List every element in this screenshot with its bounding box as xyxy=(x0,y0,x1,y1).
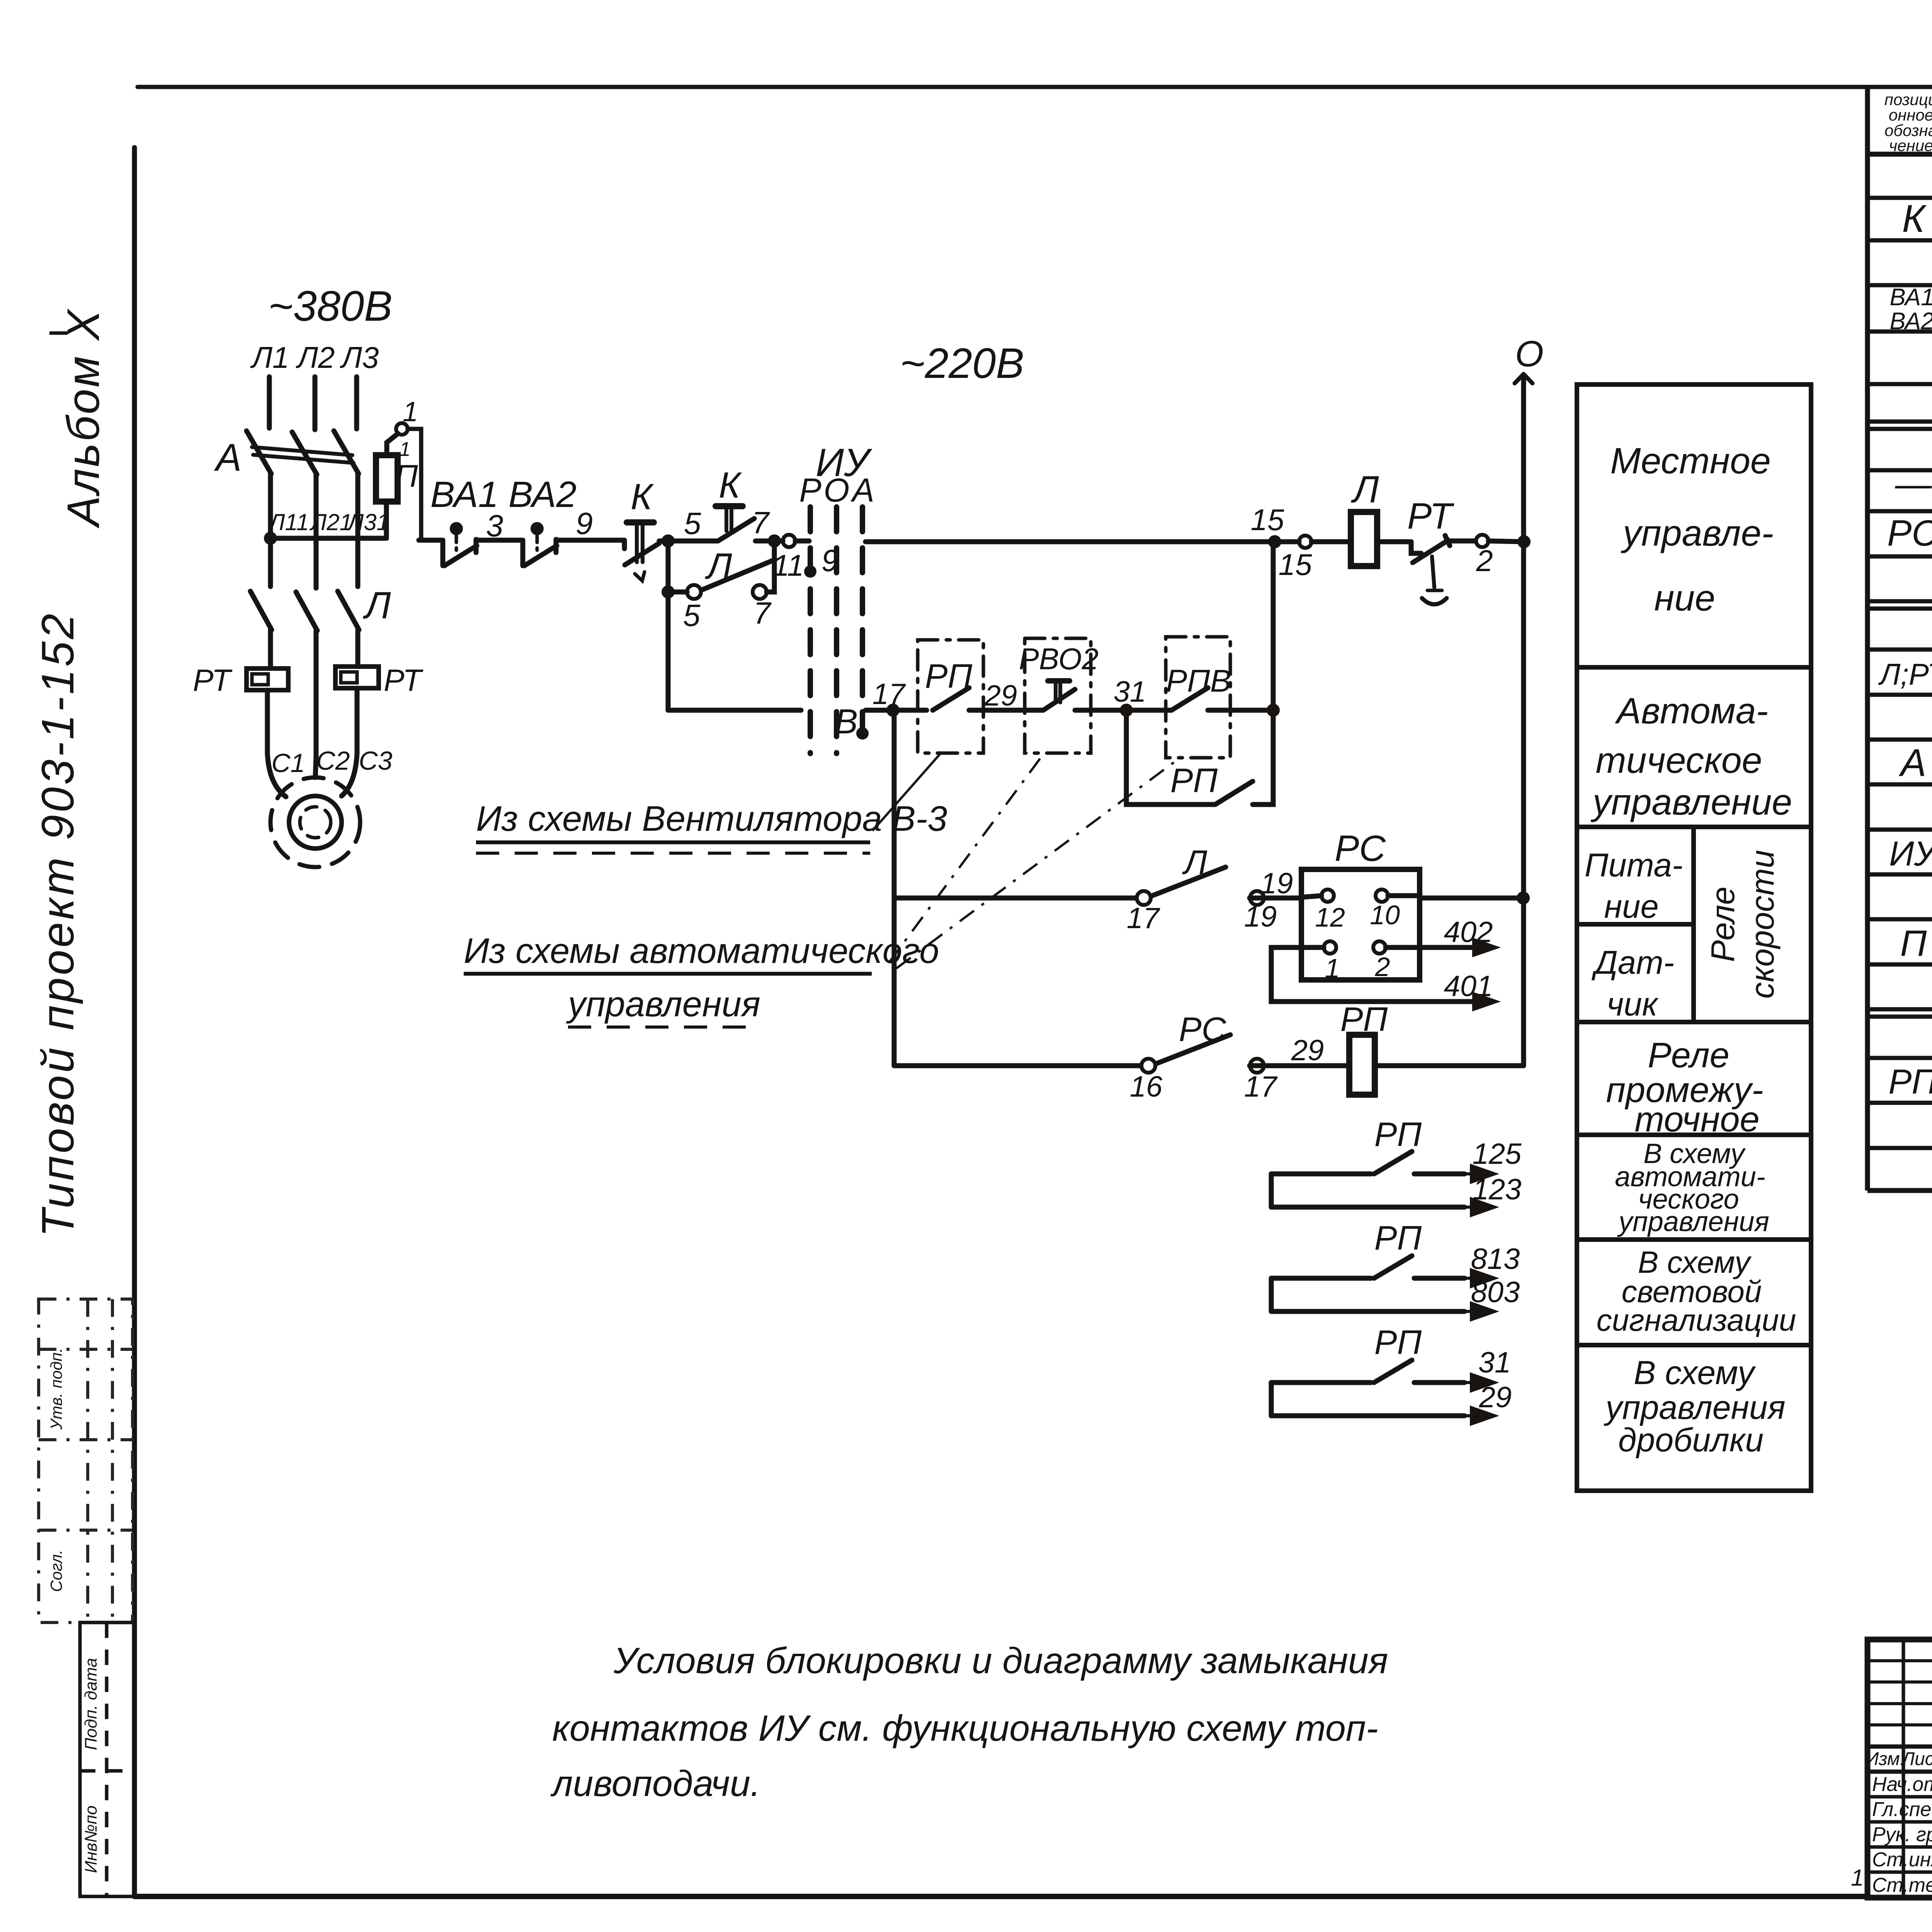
svg-text:Рук. гр.: Рук. гр. xyxy=(1872,1823,1932,1846)
svg-text:12: 12 xyxy=(1315,902,1345,932)
junction dot РС bus xyxy=(1517,891,1530,905)
wire РП coil to bus xyxy=(1375,1063,1524,1068)
svg-text:П: П xyxy=(395,459,418,494)
РС terminal 2 xyxy=(1373,941,1386,954)
РП bypass contact blade xyxy=(1215,781,1253,804)
svg-text:К: К xyxy=(1902,197,1927,240)
svg-text:Л: Л xyxy=(1350,468,1379,510)
wire circle to coil xyxy=(1311,539,1351,544)
arrow 402 xyxy=(1474,940,1496,955)
terminal circle 2 xyxy=(1476,535,1488,547)
motor M outer dashed circle xyxy=(270,777,360,867)
limit switch ВА2 xyxy=(520,540,526,566)
svg-text:Л11: Л11 xyxy=(267,509,309,535)
svg-text:Согл.: Согл. xyxy=(47,1550,65,1592)
zone row line 2 xyxy=(1577,825,1811,829)
svg-text:1: 1 xyxy=(400,438,411,461)
relay box РП (dash-dot) xyxy=(918,640,983,753)
svg-text:ИУ: ИУ xyxy=(1889,835,1932,873)
РП group 1 contact line 125 xyxy=(1271,1172,1464,1177)
svg-text:Из схемы Вентилятора В-3: Из схемы Вентилятора В-3 xyxy=(476,799,947,838)
svg-text:А: А xyxy=(214,436,242,479)
wire to ИУ xyxy=(795,539,809,544)
ZONETABLE xyxy=(1577,384,1811,1491)
svg-text:29: 29 xyxy=(984,679,1017,712)
breaker A pole 2 blade xyxy=(292,432,317,474)
wire 402 xyxy=(1386,945,1475,950)
svg-text:РП: РП xyxy=(1374,1219,1422,1257)
svg-text:16: 16 xyxy=(1130,1070,1163,1103)
svg-text:тическое: тическое xyxy=(1596,740,1762,781)
wire phase L3 lower xyxy=(355,630,361,666)
svg-text:чик: чик xyxy=(1607,986,1658,1023)
zone row line 1 xyxy=(1577,665,1811,670)
svg-text:С1: С1 xyxy=(272,748,305,778)
svg-text:17: 17 xyxy=(1127,902,1160,935)
svg-text:О: О xyxy=(1515,333,1544,374)
wire riser to node 15 xyxy=(1271,542,1276,710)
wire fuse tap xyxy=(270,536,386,541)
wire node1 to control xyxy=(408,429,421,540)
svg-text:7: 7 xyxy=(753,596,772,630)
wire fuse top to node 1 xyxy=(387,434,398,455)
title left thin rows xyxy=(1867,1659,1932,1662)
svg-text:402: 402 xyxy=(1444,916,1493,949)
svg-text:2: 2 xyxy=(1476,544,1493,578)
РП group 2 link xyxy=(1269,1278,1274,1311)
wire phase L3 upper xyxy=(354,377,359,429)
wire to motor C1 xyxy=(267,690,286,797)
wire auto branch resume xyxy=(866,708,927,713)
svg-text:РП: РП xyxy=(1340,1000,1388,1038)
svg-text:ВА1: ВА1 xyxy=(1889,284,1932,311)
zone row line 5 xyxy=(1577,1237,1811,1242)
title left col dividers xyxy=(1902,1639,1905,1898)
svg-text:РП: РП xyxy=(1374,1323,1422,1361)
svg-text:9: 9 xyxy=(821,543,839,578)
wire coil to РТ xyxy=(1377,539,1411,544)
svg-text:15: 15 xyxy=(1279,548,1312,582)
svg-text:Л21: Л21 xyxy=(309,509,352,535)
wire main segment 2 xyxy=(476,538,523,543)
svg-text:РС: РС xyxy=(1179,1010,1227,1048)
svg-text:~220В: ~220В xyxy=(900,340,1024,387)
svg-text:Нач.отд.: Нач.отд. xyxy=(1872,1773,1932,1796)
stop button К xyxy=(622,540,627,549)
speed relay РС box xyxy=(1301,869,1420,980)
stamp box upper (dash-dot) xyxy=(39,1299,133,1622)
svg-text:17: 17 xyxy=(1244,1070,1278,1103)
svg-text:К: К xyxy=(719,465,742,506)
wire phase L3 mid xyxy=(355,474,361,587)
svg-text:Изм.: Изм. xyxy=(1866,1749,1905,1769)
svg-text:В: В xyxy=(835,702,858,741)
node dot on L1 xyxy=(264,532,277,545)
relay box РВО2 (dash-dot) xyxy=(1025,638,1091,753)
wire main segment 3 xyxy=(556,538,624,543)
frame bottom border xyxy=(134,1894,1867,1899)
svg-text:Условия блокировки и диаграмму: Условия блокировки и диаграмму замыкания xyxy=(613,1640,1388,1681)
zone sub divider vertical xyxy=(1691,827,1696,1022)
svg-text:Л1: Л1 xyxy=(250,340,289,374)
parts table header row xyxy=(1867,152,1932,157)
wire fuse bottom xyxy=(384,502,389,538)
svg-text:управления: управления xyxy=(1604,1389,1785,1426)
svg-text:П: П xyxy=(1900,923,1927,964)
svg-text:31: 31 xyxy=(1114,675,1146,708)
РП bypass wire right xyxy=(1253,710,1273,804)
frame top border xyxy=(138,85,1932,89)
svg-text:—: — xyxy=(1895,464,1932,505)
breaker A pole 3 blade xyxy=(334,431,359,474)
РС terminal 12 xyxy=(1321,889,1334,902)
wire main segment 6 xyxy=(866,539,1275,544)
TITLEBLOCK xyxy=(1867,1639,1932,1898)
coil Л xyxy=(1351,512,1377,566)
svg-text:19: 19 xyxy=(1244,900,1277,933)
zone row line 3 xyxy=(1577,1020,1811,1024)
thermal heater РТ right xyxy=(335,667,379,688)
svg-text:Р: Р xyxy=(799,472,821,509)
svg-text:С3: С3 xyxy=(359,746,393,776)
svg-text:123: 123 xyxy=(1473,1173,1522,1206)
svg-text:5: 5 xyxy=(683,598,701,633)
svg-text:Пита-: Пита- xyxy=(1585,847,1683,884)
svg-text:Л: Л xyxy=(1182,843,1207,881)
svg-text:РТ: РТ xyxy=(1407,496,1454,537)
svg-text:Типовой проект 903-1-152: Типовой проект 903-1-152 xyxy=(32,611,83,1237)
svg-text:Реле: Реле xyxy=(1648,1036,1730,1075)
node dot 15 xyxy=(1268,535,1281,548)
CONTROL xyxy=(419,333,1544,1066)
svg-text:Гл.спец.: Гл.спец. xyxy=(1872,1798,1932,1821)
arrow 31 xyxy=(1464,1374,1495,1391)
svg-text:ВА2: ВА2 xyxy=(1889,308,1932,335)
РПВ contact blade xyxy=(1172,688,1208,710)
svg-text:7: 7 xyxy=(752,505,770,540)
coil РП xyxy=(1349,1035,1375,1095)
zone table frame xyxy=(1577,384,1811,1491)
arrow 29 xyxy=(1464,1408,1495,1424)
svg-text:дробилки: дробилки xyxy=(1618,1422,1764,1459)
arrow 813 xyxy=(1464,1270,1495,1286)
РП group 2 blade xyxy=(1374,1256,1412,1278)
svg-text:Ст.инж.: Ст.инж. xyxy=(1872,1849,1932,1871)
svg-text:Л2: Л2 xyxy=(296,340,335,374)
breaker A crossbar xyxy=(252,447,352,455)
line 123 xyxy=(1271,1205,1464,1210)
svg-text:31: 31 xyxy=(1478,1346,1511,1379)
line 803 xyxy=(1271,1309,1464,1314)
svg-text:РВО2: РВО2 xyxy=(1019,642,1099,676)
svg-text:О: О xyxy=(824,472,850,509)
svg-text:401: 401 xyxy=(1444,970,1493,1003)
РВО2 contact symbol xyxy=(1048,678,1070,684)
svg-text:Автома-: Автома- xyxy=(1615,690,1768,731)
РП group 3 blade xyxy=(1374,1360,1412,1383)
wire 401 xyxy=(1271,947,1475,1002)
zone sub divider horizontal xyxy=(1577,922,1694,927)
breaker A pole 1 blade xyxy=(247,431,271,474)
thermal contact РТ xyxy=(1411,542,1421,553)
svg-text:скорости: скорости xyxy=(1744,850,1781,998)
parts table outer verticals xyxy=(1865,87,1870,1190)
line 29 xyxy=(1271,1413,1464,1418)
svg-text:В схему: В схему xyxy=(1634,1354,1756,1391)
wire auto branch left xyxy=(668,708,801,713)
title signature row lines xyxy=(1867,1795,1932,1799)
contactor Л pole 2 xyxy=(296,592,317,631)
svg-text:РП: РП xyxy=(1374,1115,1422,1153)
О bus arrow head xyxy=(1515,374,1532,383)
wire to motor C3 xyxy=(342,688,357,796)
wire into РС xyxy=(1301,896,1321,897)
svg-text:РС: РС xyxy=(1335,828,1386,869)
wire main segment 1 xyxy=(419,538,443,543)
svg-text:Л31: Л31 xyxy=(346,509,389,535)
svg-text:РТ: РТ xyxy=(384,663,423,697)
svg-text:Л: Л xyxy=(704,546,732,587)
svg-text:5: 5 xyxy=(684,506,701,541)
svg-text:Л;РТ: Л;РТ xyxy=(1878,657,1932,691)
svg-text:15: 15 xyxy=(1251,503,1284,537)
svg-text:29: 29 xyxy=(1291,1034,1324,1067)
РП group 1 link xyxy=(1269,1174,1274,1207)
РП group 1 blade xyxy=(1374,1151,1412,1174)
svg-text:17: 17 xyxy=(872,678,906,711)
svg-text:Л: Л xyxy=(362,584,391,626)
wire to motor C2 xyxy=(315,757,316,777)
terminal circle 17 row2 xyxy=(1137,891,1151,905)
svg-text:11: 11 xyxy=(773,548,804,582)
wire Л-РС row left xyxy=(894,896,1135,901)
svg-text:точное: точное xyxy=(1634,1100,1759,1139)
wire main segment 4 xyxy=(659,539,718,544)
svg-text:Лист: Лист xyxy=(1901,1749,1932,1769)
wire self-hold drop xyxy=(666,541,671,710)
junction dot 11 xyxy=(768,534,781,548)
svg-text:Л3: Л3 xyxy=(340,340,379,374)
left riser from 17 xyxy=(892,710,897,1066)
parts row lines block 4 xyxy=(1867,1015,1932,1019)
svg-text:Из схемы автоматического: Из схемы автоматического xyxy=(464,931,939,971)
PARTSTABLE xyxy=(1867,87,1932,1190)
svg-text:1: 1 xyxy=(403,396,418,427)
junction dot 5 xyxy=(662,534,675,548)
wire 2 to О bus xyxy=(1488,541,1525,542)
О bus vertical xyxy=(1521,377,1526,1066)
svg-text:2: 2 xyxy=(1375,952,1390,982)
wire РС to bus xyxy=(1388,896,1522,898)
wire row2 mid xyxy=(1250,896,1301,901)
title header row line xyxy=(1867,1770,1932,1774)
svg-text:С2: С2 xyxy=(316,746,350,776)
svg-text:ние: ние xyxy=(1604,888,1658,925)
wire 31 segment xyxy=(1075,708,1171,713)
motor M inner dashed circle xyxy=(300,807,331,838)
svg-text:РП: РП xyxy=(1170,761,1218,799)
title block outer xyxy=(1867,1639,1932,1898)
arrow 125 xyxy=(1464,1166,1495,1182)
arrow 803 xyxy=(1464,1303,1495,1320)
wire 15 to circle xyxy=(1281,539,1299,544)
svg-text:ние: ние xyxy=(1654,578,1715,619)
svg-text:813: 813 xyxy=(1471,1243,1520,1276)
svg-text:9: 9 xyxy=(576,506,593,541)
svg-text:сигнализации: сигнализации xyxy=(1597,1303,1796,1337)
fuse П body xyxy=(376,455,398,502)
wire phase L1 upper xyxy=(267,377,272,428)
РП group 3 link xyxy=(1269,1383,1274,1416)
contact Л row2 blade xyxy=(1152,867,1226,896)
contactor Л pole 3 xyxy=(338,591,359,630)
wire to right riser xyxy=(1208,708,1273,713)
svg-text:125: 125 xyxy=(1473,1138,1522,1170)
svg-text:Альбом X: Альбом X xyxy=(58,308,109,529)
zone row line 6 xyxy=(1577,1343,1811,1347)
svg-text:Утв. подп.: Утв. подп. xyxy=(47,1348,65,1430)
svg-text:РП: РП xyxy=(1888,1063,1932,1101)
РС terminal 10 xyxy=(1376,889,1388,902)
leader to РП box xyxy=(872,753,940,831)
svg-text:управле-: управле- xyxy=(1621,513,1774,554)
POWER xyxy=(193,282,423,867)
svg-text:3: 3 xyxy=(486,509,503,543)
svg-text:РС: РС xyxy=(1887,513,1932,554)
junction dot right riser xyxy=(1267,704,1280,717)
wire РТ to 2 xyxy=(1450,539,1475,544)
parts row lines block 3 xyxy=(1867,607,1932,611)
wire phase L2 upper xyxy=(313,377,318,430)
node dot В on А line xyxy=(856,727,869,740)
svg-text:управления: управления xyxy=(1617,1206,1769,1237)
node dot 31 xyxy=(1120,704,1133,717)
parts row lines block 1 xyxy=(1867,196,1932,200)
zone row line 4 xyxy=(1577,1133,1811,1137)
wire phase L2 mid xyxy=(314,474,319,588)
SIGNALS xyxy=(668,542,1530,1424)
svg-text:19: 19 xyxy=(1260,867,1293,900)
svg-text:Реле: Реле xyxy=(1705,886,1742,962)
РП group 2 contact line 813 xyxy=(1271,1276,1464,1281)
РП group 3 contact line 31 xyxy=(1271,1380,1464,1385)
svg-text:1: 1 xyxy=(1325,953,1340,983)
wire row3 mid xyxy=(1250,1063,1349,1068)
svg-text:803: 803 xyxy=(1471,1276,1520,1309)
node dot 17 xyxy=(886,704,900,717)
wire РС-РП row left xyxy=(894,1063,1140,1068)
leader to РПВ box xyxy=(896,759,1179,968)
svg-text:10: 10 xyxy=(1370,900,1400,930)
parts row lines block 2 xyxy=(1867,427,1932,431)
self-hold contact Л xyxy=(687,585,701,599)
svg-text:управления: управления xyxy=(566,985,760,1024)
contact РС blade xyxy=(1157,1035,1230,1063)
svg-text:Дат-: Дат- xyxy=(1592,944,1674,981)
svg-text:Местное: Местное xyxy=(1610,440,1771,481)
terminal circle 17b xyxy=(1250,1059,1264,1073)
svg-text:чение: чение xyxy=(1889,136,1932,155)
svg-text:Подп. дата: Подп. дата xyxy=(82,1658,100,1750)
svg-text:РТ: РТ xyxy=(193,663,233,697)
svg-text:А: А xyxy=(1899,741,1927,784)
svg-text:К: К xyxy=(631,476,654,517)
svg-text:~380В: ~380В xyxy=(268,282,392,330)
wire phase L2 lower xyxy=(314,631,319,757)
selector ИУ line А xyxy=(860,507,865,733)
svg-text:управление: управление xyxy=(1590,782,1792,823)
wire 29 segment xyxy=(969,708,1043,713)
arrow 401 xyxy=(1474,994,1496,1009)
terminal circle 19 xyxy=(1250,891,1264,905)
leader to РВО2 box xyxy=(889,754,1043,963)
РП contact blade xyxy=(933,688,969,710)
svg-text:1: 1 xyxy=(1851,1865,1864,1891)
limit switch ВА1 xyxy=(440,540,446,566)
svg-text:контактов ИУ см. функциональну: контактов ИУ см. функциональную схему то… xyxy=(552,1708,1378,1749)
dot 9 on Р line xyxy=(804,565,816,578)
wire phase L1 lower xyxy=(268,630,273,668)
svg-text:ливоподачи.: ливоподачи. xyxy=(550,1763,760,1804)
arrow 123 xyxy=(1464,1199,1495,1215)
svg-text:ВА2: ВА2 xyxy=(509,474,577,515)
junction dot on О bus xyxy=(1517,535,1531,548)
contactor Л pole 1 xyxy=(250,591,272,630)
junction dot self-hold xyxy=(662,585,675,599)
svg-text:Инв№по: Инв№по xyxy=(82,1806,100,1873)
node 1 terminal circle xyxy=(396,423,408,435)
svg-text:А: А xyxy=(850,472,874,509)
relay box РПВ (dash-dot) xyxy=(1166,637,1230,758)
underline of X xyxy=(49,332,68,335)
motor M body circle xyxy=(289,796,342,849)
terminal circle 11 xyxy=(783,535,795,547)
terminal circle 16 xyxy=(1141,1059,1155,1073)
svg-text:29: 29 xyxy=(1479,1381,1512,1414)
selector ИУ line О xyxy=(834,507,839,753)
thermal heater РТ left xyxy=(247,668,288,690)
РП bypass drop xyxy=(1126,710,1215,804)
wire main segment 5 xyxy=(755,539,783,544)
start button К xyxy=(716,503,743,509)
РС terminal 1 xyxy=(1324,941,1336,954)
selector ИУ line Р xyxy=(808,507,813,753)
wire phase L1 mid xyxy=(268,474,273,587)
stamp box lower xyxy=(80,1622,134,1896)
frame left border xyxy=(132,148,137,1896)
terminal circle 15 xyxy=(1299,536,1311,548)
svg-text:Ст.техн.: Ст.техн. xyxy=(1872,1874,1932,1896)
